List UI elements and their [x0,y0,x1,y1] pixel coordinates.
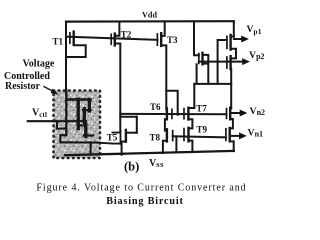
wire: VCR main vertical [65,90,67,135]
Vdd rail [66,20,234,23]
wire: bus drop to T7 [193,84,195,108]
wire: VCR drop to Vss [90,142,92,153]
Vss rail [65,151,234,155]
wire: T3 drain drop to T6 [161,45,166,109]
wire: T5 source to Vss [122,142,126,155]
wire: U4 top lead [230,107,231,109]
wire: VCR top branch H1 [66,98,90,100]
svg-text:T8: T8 [150,132,161,142]
transistor U4 (Vn2 output) [227,108,231,120]
wire: gate bus T1-T2-T3 [66,37,157,40]
wire: U1 gate-bottom drop to bus [196,64,198,84]
transistor U1 (unlabeled PMOS) [199,53,203,65]
wire: VCR lower-left jog [60,135,66,142]
wire: U5 source drop to Vss [230,141,234,151]
wire: VCR output routed to T5 gate (bracket around label) [97,133,120,144]
svg-text:Vss: Vss [149,158,164,169]
wire: W2 gate bus T8-T9-Vn1 [173,136,226,137]
svg-text:T3: T3 [167,35,178,45]
svg-text:Vdd: Vdd [142,10,157,19]
wire: T2 drain drop to T5 gate [115,44,121,132]
wire: T7 drain to T9 [188,119,192,128]
wire: U4 drain to U5 [230,119,233,128]
svg-text:Vctl: Vctl [32,108,47,120]
wire: U2 gate lead drop to Vp2 node [218,40,227,84]
voltage controlled resistor box [54,91,101,159]
transistor T8 [167,129,173,141]
svg-text:Figure 4. Voltage to Current C: Figure 4. Voltage to Current Converter a… [36,183,246,194]
wire: T9 source drop to Vss [189,141,193,152]
transistor U3 (Vp2 cascode) [227,56,231,69]
wire: T6 drain to T8 [165,119,167,131]
wire: T5 drain lead [126,132,137,134]
wire: Vctl input [28,120,86,122]
transistor T5 [121,130,126,144]
svg-text:Vp2: Vp2 [249,50,265,61]
svg-text:Vn1: Vn1 [248,128,264,139]
transistor T6 [167,108,172,119]
svg-text:Biasing Bircuit: Biasing Bircuit [106,196,184,207]
svg-text:T6: T6 [150,102,161,112]
transistor T3 [157,33,161,46]
wire: Vctl branch loop [57,121,66,128]
wire: U3 drain long drop to Vn2 stage [230,69,232,108]
svg-text:T5: T5 [107,132,118,142]
wire: W1 mid bus T5..Vn2 gate [120,113,226,115]
wire: T8 source drop to Vss [163,141,167,153]
wire: Vdd rail right drop [233,21,235,36]
transistor U2 (Vp1 cascode) [227,35,231,50]
svg-text:Vp1: Vp1 [247,25,262,36]
wire: Vdd drop to U1 gate [194,22,199,56]
transistor T9 [184,128,189,142]
svg-text:Resistor: Resistor [5,81,41,92]
wire: mid drop T8/T9 to Vss [175,137,177,152]
wire: U2 drain to U3 source [231,49,236,59]
wire: mid bus above T7 [194,83,231,85]
svg-text:Vn2: Vn2 [250,106,266,117]
svg-text:(b): (b) [124,160,139,174]
wire: Vdd rail left drop to T1/VCR column [65,22,67,91]
wire/arrow Vp2 node line [199,58,250,65]
transistor T7 [184,108,188,120]
transistor VCR upper: bars A,B,C staircase [78,99,90,128]
transistor T1 [70,32,74,45]
transistor T2 [111,34,115,46]
svg-text:T1: T1 [53,36,64,46]
arrow: Resistor label pointer [44,87,59,95]
wire: VCR inner stub [84,134,94,136]
wire: T1 drain loop to gate column [66,45,86,57]
wire: T2 source riser to Vdd [115,22,120,36]
svg-text:Voltage: Voltage [23,59,55,70]
wire: T7 source lead [188,107,194,109]
arrow Vn2 [231,110,247,117]
wire: T3 source riser to Vdd [161,22,165,36]
arrow Vn1 [231,132,247,139]
svg-text:T7: T7 [196,103,207,113]
wire: staple from T3 drain to T6/T7 gate riser [166,91,177,115]
svg-text:T2: T2 [121,29,132,39]
arrow Vp1 [234,36,249,43]
wire: U2 source lead [231,36,234,38]
svg-text:T9: T9 [197,125,208,135]
wire: VCR bottom connector [60,141,96,143]
wire: T5 drain riser [136,117,138,133]
label Voltage Controlled Resistor [4,59,55,92]
transistor U5 (Vn1 output) [226,128,230,141]
wire: U1 source/drain leads to drop [203,55,209,84]
transistor VCR lower: bar D and step [80,124,86,136]
